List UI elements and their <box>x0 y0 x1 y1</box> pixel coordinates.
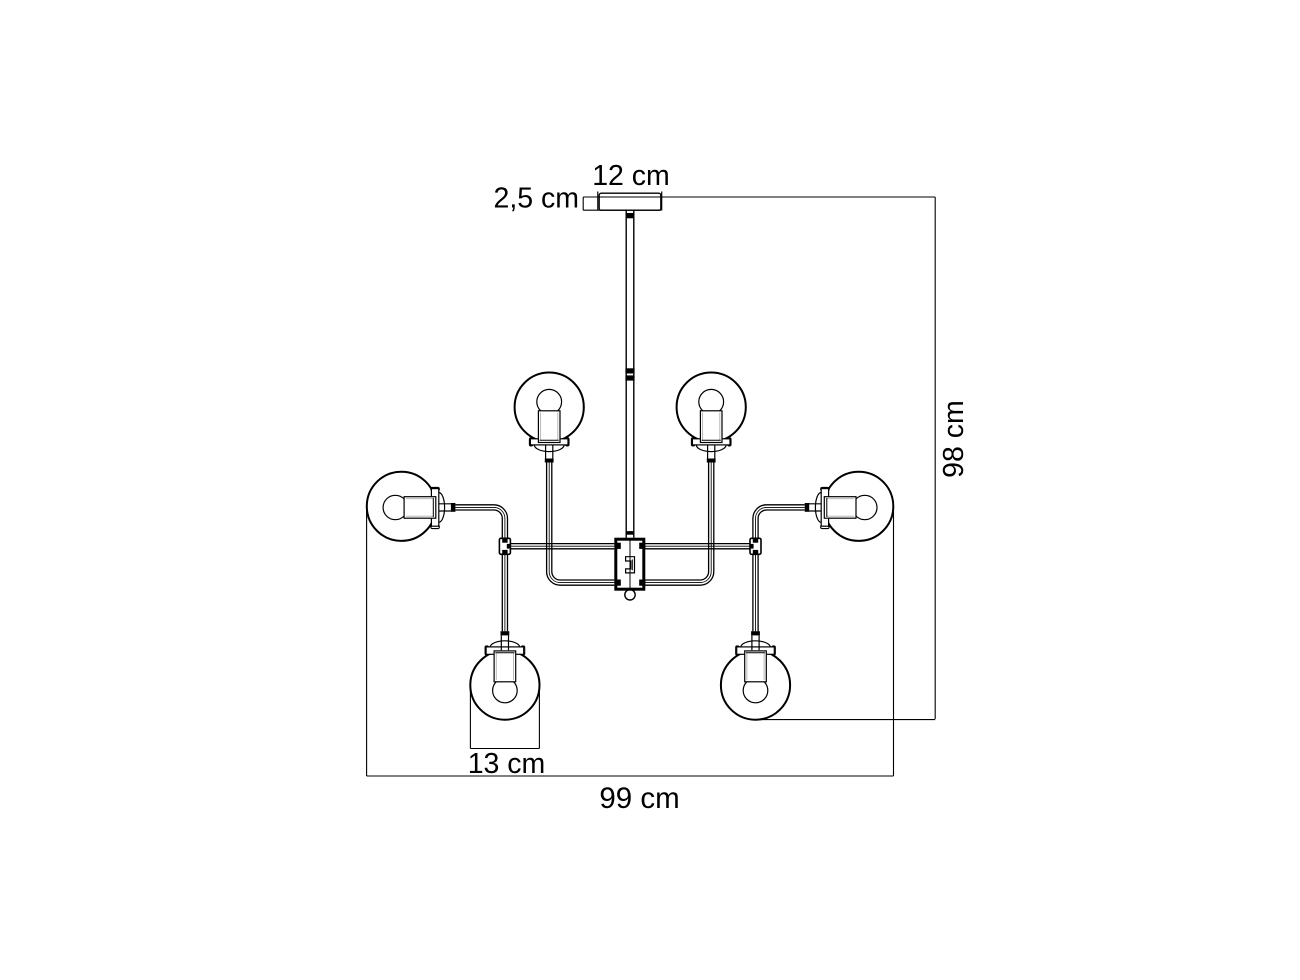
left junction block body <box>499 538 510 554</box>
top-left connector band <box>545 459 554 463</box>
right-side bulb <box>853 495 877 519</box>
dimension 99 cm right extension line <box>893 509 895 776</box>
arm tube: top-right riser and lower-right rail to hub <box>645 462 714 585</box>
right junction block body <box>750 538 761 554</box>
top-left stem <box>546 445 553 459</box>
central rod right edge <box>633 210 635 538</box>
top-right holder ring right cap <box>728 438 731 446</box>
dimension 2,5 cm bracket bottom / canopy underline <box>583 209 661 211</box>
dimension 13 cm bottom line <box>470 748 539 750</box>
bottom-left globe glass <box>470 651 539 720</box>
arm tube: upper rail right (junction to hub) <box>645 544 755 549</box>
left junction side tab <box>507 544 511 549</box>
left-side stem <box>439 504 451 511</box>
bottom-left socket rim line <box>495 652 514 654</box>
dimension 98 cm bottom leader to globe <box>756 719 935 721</box>
right junction side tab <box>750 544 754 549</box>
hub clip detail <box>626 557 635 573</box>
bottom-right socket rim line <box>746 652 765 654</box>
arm tube: right-side lamp arm down to bottom-right lamp <box>753 505 805 631</box>
top-right holder ring left cap <box>691 438 694 446</box>
top-right bulb <box>699 389 724 414</box>
top-left socket <box>538 411 560 443</box>
bottom-left stem <box>501 635 508 650</box>
right-side stem <box>809 504 821 511</box>
dimension 98 cm vertical line <box>934 197 936 719</box>
arm tube: top-left riser and lower-left rail to hub <box>547 462 615 585</box>
top-left socket rim line <box>540 439 559 441</box>
arm tube: left-side lamp arm down to bottom-left lamp <box>455 505 507 631</box>
right-side connector band <box>805 503 810 512</box>
bottom-right socket shading <box>747 653 764 680</box>
top-left socket shading <box>541 413 558 441</box>
left-side connector band <box>451 503 456 512</box>
bottom-right stem <box>752 635 759 650</box>
top-right neck dome <box>696 445 726 452</box>
ceiling canopy plate <box>599 193 661 210</box>
top-left bulb <box>537 389 562 414</box>
right-side holder ring top cap <box>821 487 829 490</box>
bottom-left socket shading <box>496 653 513 680</box>
canopy 12 cm right tick <box>661 192 663 211</box>
right-side holder ring bar <box>821 489 828 527</box>
left-side neck dome <box>439 493 445 523</box>
bottom-right holder ring bar <box>737 647 775 654</box>
bottom-left neck dome <box>490 641 520 648</box>
left-side globe glass <box>367 472 436 541</box>
top-right socket <box>700 411 722 443</box>
top-right socket shading <box>703 413 720 441</box>
right-side holder ring bottom cap <box>821 525 829 528</box>
dimension 13 cm right extension line <box>538 685 540 748</box>
left-side lamp <box>367 472 456 541</box>
bottom-left holder ring right cap <box>521 646 524 655</box>
central hub body <box>616 539 644 589</box>
left-side holder ring bar <box>431 489 438 527</box>
left-side bulb <box>383 495 407 519</box>
hub top-left tab <box>615 543 621 549</box>
bottom-left socket <box>494 651 516 682</box>
bottom-right globe glass <box>721 651 790 720</box>
top-left neck dome <box>534 445 564 452</box>
hub top-right tab <box>639 543 645 549</box>
top-right holder ring bar <box>692 439 730 445</box>
right-side socket <box>824 497 856 519</box>
left junction top tab <box>502 538 507 542</box>
bottom-left bulb <box>493 678 518 703</box>
svg-text:98 cm: 98 cm <box>938 400 970 478</box>
central rod left edge <box>625 210 627 538</box>
top-right globe glass <box>677 373 746 442</box>
top-left holder ring left cap <box>529 438 532 446</box>
right-side socket rim line <box>826 498 828 517</box>
dimension 2,5 cm bracket vertical <box>582 197 584 210</box>
right-side socket shading <box>827 499 855 517</box>
right-side neck dome <box>815 493 821 523</box>
top-left lamp <box>515 373 584 463</box>
hub bottom knob <box>625 590 635 600</box>
canopy 12 cm left tick <box>597 192 599 211</box>
left-side socket shading <box>406 499 434 517</box>
arm tube: upper rail left (junction to hub) <box>505 544 614 549</box>
bottom-right holder ring right cap <box>772 646 775 655</box>
left-side holder ring bottom cap <box>431 525 439 528</box>
bottom-left holder ring left cap <box>485 646 488 655</box>
top-left globe glass <box>515 373 584 442</box>
top-right stem <box>708 445 715 459</box>
bottom-right socket <box>745 651 767 682</box>
dimension 99 cm bottom line <box>367 775 894 777</box>
right junction top tab <box>753 538 758 542</box>
dimension 13 cm left extension line <box>469 685 471 748</box>
dimension extension line from canopy top to right (98 cm reference) <box>583 196 935 198</box>
rod mid coupler lower band <box>625 375 634 380</box>
bottom-right holder ring left cap <box>736 646 739 655</box>
bottom-left holder ring bar <box>486 647 524 654</box>
dimension 99 cm left extension line <box>366 509 368 776</box>
bottom-right connector band <box>751 631 760 635</box>
hub bottom-right tab <box>639 580 645 586</box>
svg-text:13 cm: 13 cm <box>468 748 546 780</box>
bottom-right bulb <box>743 678 768 703</box>
left-side holder ring top cap <box>431 487 439 490</box>
svg-text:2,5 cm: 2,5 cm <box>493 183 579 215</box>
top-right lamp <box>677 373 746 463</box>
svg-text:99 cm: 99 cm <box>599 782 679 815</box>
left-side socket rim line <box>432 498 434 517</box>
top-right connector band <box>707 459 716 463</box>
rod band above hub <box>626 531 634 535</box>
top-right socket rim line <box>702 439 721 441</box>
rod mid coupler upper band <box>625 368 634 373</box>
hub center seam <box>629 539 631 589</box>
bottom-right lamp <box>721 631 790 720</box>
top-left holder ring bar <box>530 439 568 445</box>
top-left holder ring right cap <box>566 438 569 446</box>
svg-text:12 cm: 12 cm <box>592 160 670 192</box>
left junction bottom tab <box>502 550 507 554</box>
bottom-left lamp <box>470 631 539 720</box>
right-side lamp <box>805 472 894 541</box>
hub clip inner spine <box>631 559 633 570</box>
right-side globe glass <box>824 472 893 541</box>
bottom-left connector band <box>501 631 510 635</box>
left-side socket <box>404 497 436 519</box>
right junction bottom tab <box>753 550 758 554</box>
hub bottom-left tab <box>615 580 621 586</box>
bottom-right neck dome <box>741 641 771 648</box>
rod connector band below canopy <box>626 213 635 218</box>
